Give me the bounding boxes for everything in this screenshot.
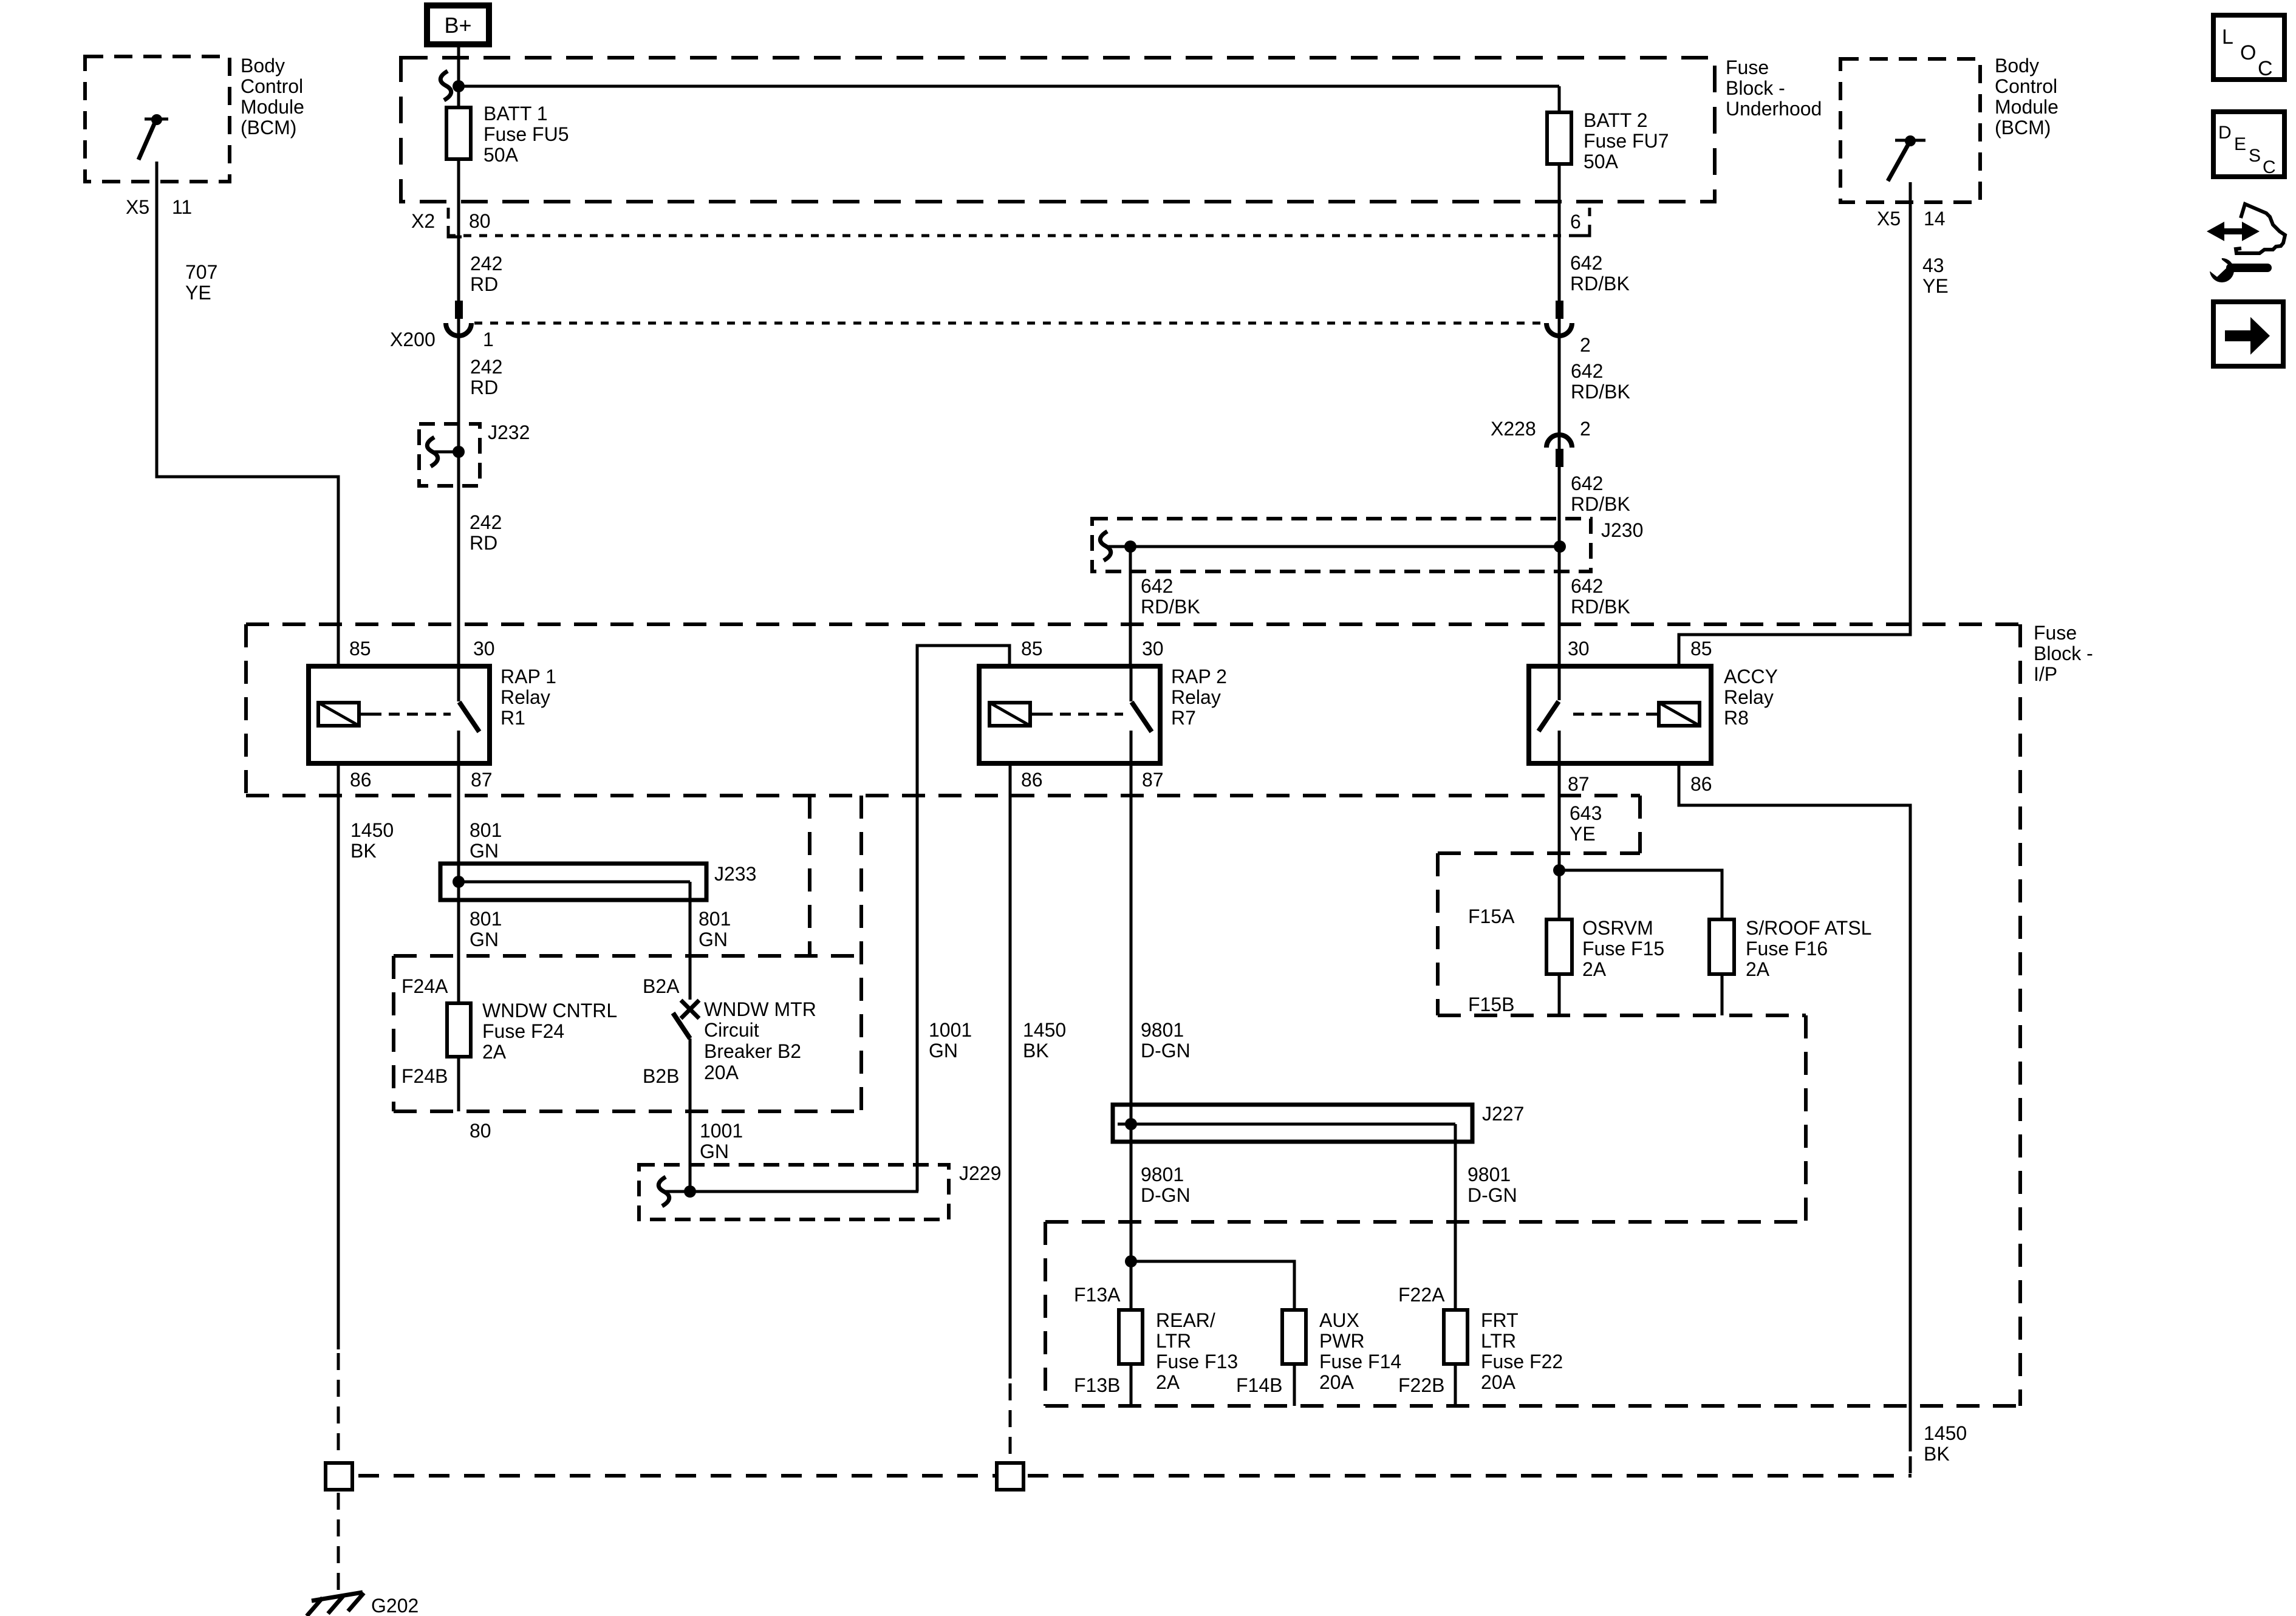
svg-text:87: 87 xyxy=(1142,769,1164,791)
svg-text:FRT: FRT xyxy=(1481,1309,1519,1331)
svg-text:707: 707 xyxy=(185,261,217,283)
svg-text:(BCM): (BCM) xyxy=(1995,117,2051,138)
svg-text:LTR: LTR xyxy=(1481,1330,1516,1352)
svg-text:BK: BK xyxy=(1023,1040,1049,1062)
svg-text:J233: J233 xyxy=(714,863,756,885)
icon DESC box xyxy=(2213,112,2284,177)
svg-text:S/ROOF ATSL: S/ROOF ATSL xyxy=(1746,917,1871,939)
wire 801 GN from J233 to breaker B2 xyxy=(689,900,692,956)
svg-text:I/P: I/P xyxy=(2034,663,2057,685)
svg-text:RD/BK: RD/BK xyxy=(1571,381,1630,403)
svg-text:50A: 50A xyxy=(1584,151,1619,172)
svg-text:YE: YE xyxy=(185,282,211,304)
svg-text:J227: J227 xyxy=(1482,1103,1524,1125)
svg-text:REAR/: REAR/ xyxy=(1156,1309,1215,1331)
svg-text:L: L xyxy=(2222,26,2233,49)
ground square middle xyxy=(997,1463,1023,1490)
wire relay R8 pin 85 loop up to BCM right xyxy=(1679,182,1910,666)
svg-text:30: 30 xyxy=(473,638,495,660)
svg-text:RD: RD xyxy=(470,377,498,398)
svg-text:242: 242 xyxy=(470,253,502,274)
svg-text:Fuse F24: Fuse F24 xyxy=(482,1020,564,1042)
svg-text:R7: R7 xyxy=(1171,707,1196,729)
svg-text:BATT 2: BATT 2 xyxy=(1584,109,1648,131)
svg-text:D: D xyxy=(2218,123,2232,143)
svg-text:PWR: PWR xyxy=(1319,1330,1365,1352)
svg-text:11: 11 xyxy=(172,196,192,218)
svg-text:Relay: Relay xyxy=(1171,686,1221,708)
svg-text:G202: G202 xyxy=(371,1595,419,1616)
svg-text:GN: GN xyxy=(700,1140,729,1162)
svg-text:X5: X5 xyxy=(126,196,149,218)
svg-text:85: 85 xyxy=(1690,638,1712,660)
svg-text:ACCY: ACCY xyxy=(1724,666,1778,687)
wire J230 left branch to relay R7 pin 30 xyxy=(1129,547,1132,666)
svg-text:E: E xyxy=(2234,134,2246,154)
relay R8 xyxy=(1529,666,1711,763)
svg-text:Fuse F16: Fuse F16 xyxy=(1746,938,1828,960)
svg-text:50A: 50A xyxy=(483,144,519,166)
svg-text:2A: 2A xyxy=(482,1041,507,1063)
svg-text:B2B: B2B xyxy=(643,1065,679,1087)
wire top bus from B+ to fuse FU7 xyxy=(459,85,1559,88)
Fuse Block I/P dashed outline segments xyxy=(246,624,2020,1406)
fuse F13 xyxy=(1119,1310,1143,1364)
fuse F22 xyxy=(1444,1310,1467,1364)
svg-text:Module: Module xyxy=(1995,96,2059,118)
svg-text:F24A: F24A xyxy=(401,975,448,997)
svg-text:Body: Body xyxy=(1995,55,2039,77)
svg-text:R8: R8 xyxy=(1724,707,1749,729)
wire relay R7 pin 87 drop through J227 to fuse F13 xyxy=(1130,763,1133,1406)
svg-text:80: 80 xyxy=(470,1120,491,1142)
svg-text:RAP 2: RAP 2 xyxy=(1171,666,1227,687)
svg-text:RD/BK: RD/BK xyxy=(1570,273,1630,295)
svg-text:85: 85 xyxy=(349,638,371,660)
wire relay R1 pin 87 drop through J233 to fuse F24 xyxy=(457,763,460,1111)
connector pin 6 bracket xyxy=(1570,208,1590,236)
svg-text:O: O xyxy=(2240,41,2256,64)
ground distribution dashed line xyxy=(358,1474,1912,1478)
svg-text:F22B: F22B xyxy=(1398,1374,1444,1396)
splice J230 dashed box xyxy=(1092,519,1591,571)
icon vehicle outline xyxy=(2236,204,2285,253)
splice J227 box and bus xyxy=(1113,1105,1472,1406)
relay R1 xyxy=(309,666,490,763)
fuse F24 xyxy=(447,1003,471,1057)
svg-text:86: 86 xyxy=(350,769,372,791)
svg-text:BK: BK xyxy=(350,840,377,862)
svg-text:F13A: F13A xyxy=(1074,1284,1121,1306)
ground G202 symbol xyxy=(307,1592,364,1616)
svg-text:X200: X200 xyxy=(390,329,436,350)
svg-text:242: 242 xyxy=(470,511,502,533)
icon double arrow xyxy=(2207,222,2260,241)
svg-text:GN: GN xyxy=(929,1040,958,1062)
svg-text:LTR: LTR xyxy=(1156,1330,1191,1352)
wire BCM left output 707 YE xyxy=(157,162,338,666)
svg-text:801: 801 xyxy=(470,908,502,930)
Fuse Block - Underhood dashed box xyxy=(401,58,1715,202)
svg-text:1450: 1450 xyxy=(1023,1019,1066,1041)
wire relay R7 pin 86 ground drop 1450 BK xyxy=(1009,763,1012,1379)
connector X228 (cup and bar) xyxy=(1546,435,1572,467)
svg-text:1001: 1001 xyxy=(700,1120,743,1142)
svg-text:87: 87 xyxy=(471,769,493,791)
connector pin 2 (bar and cup) right xyxy=(1546,301,1572,336)
svg-text:642: 642 xyxy=(1571,575,1603,597)
svg-text:80: 80 xyxy=(469,210,491,232)
splice J229 wave, bus and junction xyxy=(658,1177,918,1206)
svg-text:9801: 9801 xyxy=(1141,1019,1184,1041)
svg-text:D-GN: D-GN xyxy=(1467,1184,1517,1206)
Body Control Module (BCM) left dashed box xyxy=(85,56,230,182)
switch inside BCM right xyxy=(1888,135,1925,181)
svg-text:F14B: F14B xyxy=(1236,1374,1282,1396)
connector X2 pin 80 bracket xyxy=(448,208,462,237)
svg-text:X228: X228 xyxy=(1491,418,1536,440)
svg-text:1450: 1450 xyxy=(1924,1422,1967,1444)
circuit breaker B2 xyxy=(673,956,699,1192)
connector X200 pin 1 (bar and cup) xyxy=(446,301,471,336)
Body Control Module (BCM) right dashed box xyxy=(1840,59,1980,202)
svg-text:1001: 1001 xyxy=(929,1019,972,1041)
svg-text:Underhood: Underhood xyxy=(1726,98,1822,120)
svg-text:B2A: B2A xyxy=(643,975,680,997)
svg-text:RD/BK: RD/BK xyxy=(1571,596,1630,618)
svg-text:Fuse: Fuse xyxy=(1726,56,1769,78)
svg-text:1450: 1450 xyxy=(350,819,394,841)
svg-text:F13B: F13B xyxy=(1074,1374,1120,1396)
svg-text:Block -: Block - xyxy=(2034,643,2093,664)
svg-text:Fuse FU5: Fuse FU5 xyxy=(483,123,569,145)
relay R7 xyxy=(979,666,1160,763)
junction at B+ and top bus xyxy=(453,80,465,92)
svg-text:642: 642 xyxy=(1571,360,1603,382)
svg-text:RAP 1: RAP 1 xyxy=(501,666,556,687)
splice wave at top bus left end xyxy=(440,71,451,100)
fuse FU5 xyxy=(446,107,471,159)
splice J230 wave, bus and junctions xyxy=(1100,531,1566,561)
dashed tail of right ground drop xyxy=(1909,1456,1912,1476)
svg-text:Module: Module xyxy=(241,96,304,118)
svg-text:J230: J230 xyxy=(1601,519,1643,541)
svg-text:F24B: F24B xyxy=(401,1065,448,1087)
svg-text:OSRVM: OSRVM xyxy=(1582,917,1653,939)
svg-text:D-GN: D-GN xyxy=(1141,1184,1191,1206)
svg-text:(BCM): (BCM) xyxy=(241,117,296,138)
svg-text:87: 87 xyxy=(1568,773,1590,795)
svg-text:20A: 20A xyxy=(704,1062,739,1083)
svg-text:2: 2 xyxy=(1580,418,1591,440)
svg-text:F15B: F15B xyxy=(1468,994,1514,1015)
svg-text:85: 85 xyxy=(1021,638,1043,660)
svg-text:Fuse F13: Fuse F13 xyxy=(1156,1351,1238,1372)
wire B+ feed down to relay R1 pin 30 xyxy=(457,47,460,666)
wire relay R8 pin 86 loop to right ground drop 1450 BK xyxy=(1679,763,1910,1451)
svg-text:642: 642 xyxy=(1141,575,1173,597)
svg-text:RD: RD xyxy=(470,273,498,295)
svg-text:Control: Control xyxy=(241,75,303,97)
svg-text:242: 242 xyxy=(470,356,502,378)
svg-text:Fuse F14: Fuse F14 xyxy=(1319,1351,1401,1372)
svg-text:F15A: F15A xyxy=(1468,905,1515,927)
wire relay R7 pin 85 loop from 1001 GN riser xyxy=(917,646,1010,1192)
svg-text:Relay: Relay xyxy=(1724,686,1774,708)
svg-text:Circuit: Circuit xyxy=(704,1019,759,1041)
svg-text:BK: BK xyxy=(1924,1443,1950,1465)
svg-text:WNDW CNTRL: WNDW CNTRL xyxy=(482,1000,617,1021)
svg-text:B+: B+ xyxy=(444,13,471,38)
svg-text:J229: J229 xyxy=(959,1162,1001,1184)
svg-text:642: 642 xyxy=(1571,472,1603,494)
switch inside BCM left xyxy=(138,114,168,160)
svg-text:C: C xyxy=(2258,57,2273,80)
splice J229 dashed box xyxy=(639,1165,949,1219)
svg-text:RD/BK: RD/BK xyxy=(1141,596,1200,618)
svg-text:20A: 20A xyxy=(1319,1371,1355,1393)
svg-text:GN: GN xyxy=(470,840,499,862)
wire relay R1 pin 86 ground drop 1450 BK xyxy=(337,763,340,1349)
svg-text:J232: J232 xyxy=(488,421,530,443)
svg-text:X2: X2 xyxy=(411,210,435,232)
svg-text:RD/BK: RD/BK xyxy=(1571,493,1630,515)
svg-text:20A: 20A xyxy=(1481,1371,1516,1393)
svg-text:2: 2 xyxy=(1580,334,1591,356)
ground wire to G202 xyxy=(337,1493,340,1594)
power symbol B+ xyxy=(427,5,489,44)
svg-text:YE: YE xyxy=(1570,823,1596,845)
fuse F14 xyxy=(1282,1310,1306,1364)
svg-text:AUX: AUX xyxy=(1319,1309,1359,1331)
svg-text:2A: 2A xyxy=(1582,958,1607,980)
svg-text:GN: GN xyxy=(470,929,499,950)
icon arrow box xyxy=(2213,302,2283,366)
svg-text:BATT 1: BATT 1 xyxy=(483,103,548,124)
connector row X2 dotted line xyxy=(448,234,1587,237)
svg-text:R1: R1 xyxy=(501,707,525,729)
svg-text:642: 642 xyxy=(1570,252,1602,274)
fuse FU7 xyxy=(1547,112,1571,164)
svg-text:Body: Body xyxy=(241,55,285,77)
junction and branch to fuse F16 xyxy=(1553,864,1722,1015)
svg-text:Fuse F15: Fuse F15 xyxy=(1582,938,1664,960)
svg-text:F22A: F22A xyxy=(1398,1284,1445,1306)
svg-text:30: 30 xyxy=(1142,638,1164,660)
svg-text:YE: YE xyxy=(1922,275,1949,297)
junction and branch to fuse F14 xyxy=(1125,1255,1294,1406)
svg-text:14: 14 xyxy=(1924,208,1946,230)
svg-text:X5: X5 xyxy=(1877,208,1901,230)
fuse F16 xyxy=(1709,919,1734,974)
svg-text:2A: 2A xyxy=(1156,1371,1180,1393)
svg-text:643: 643 xyxy=(1570,802,1602,824)
svg-text:801: 801 xyxy=(699,908,731,930)
svg-text:9801: 9801 xyxy=(1467,1164,1511,1185)
svg-text:801: 801 xyxy=(470,819,502,841)
svg-text:6: 6 xyxy=(1570,211,1581,233)
fuse F15 xyxy=(1546,919,1572,974)
svg-text:WNDW MTR: WNDW MTR xyxy=(704,998,816,1020)
splice J232 wave and junction xyxy=(427,437,465,466)
svg-text:43: 43 xyxy=(1922,254,1944,276)
svg-text:D-GN: D-GN xyxy=(1141,1040,1191,1062)
svg-text:Fuse: Fuse xyxy=(2034,622,2077,644)
connector X200 row dotted line xyxy=(474,322,1546,325)
svg-text:Fuse F22: Fuse F22 xyxy=(1481,1351,1563,1372)
ground square left xyxy=(326,1463,352,1490)
svg-text:C: C xyxy=(2263,157,2276,177)
svg-text:86: 86 xyxy=(1021,769,1043,791)
icon wrench xyxy=(2202,248,2267,282)
svg-text:2A: 2A xyxy=(1746,958,1770,980)
splice J233 box and bus xyxy=(440,864,706,900)
svg-text:9801: 9801 xyxy=(1141,1164,1184,1185)
svg-text:Block -: Block - xyxy=(1726,77,1785,99)
svg-text:1: 1 xyxy=(483,329,494,350)
svg-text:86: 86 xyxy=(1690,773,1712,795)
svg-text:Breaker B2: Breaker B2 xyxy=(704,1040,801,1062)
svg-text:S: S xyxy=(2249,146,2261,166)
wire fuse FU7 drop to relay R8 pin 30 xyxy=(1558,86,1561,666)
svg-text:Fuse FU7: Fuse FU7 xyxy=(1584,130,1669,152)
splice J232 dashed box xyxy=(419,424,480,486)
svg-text:Control: Control xyxy=(1995,75,2057,97)
svg-text:GN: GN xyxy=(699,929,728,950)
wire relay R8 pin 87 drop 643 YE to fuses F15/F16 xyxy=(1558,763,1561,1015)
svg-text:RD: RD xyxy=(470,532,497,554)
icon LOC box xyxy=(2213,15,2284,80)
svg-text:Relay: Relay xyxy=(501,686,550,708)
svg-text:30: 30 xyxy=(1568,638,1590,660)
